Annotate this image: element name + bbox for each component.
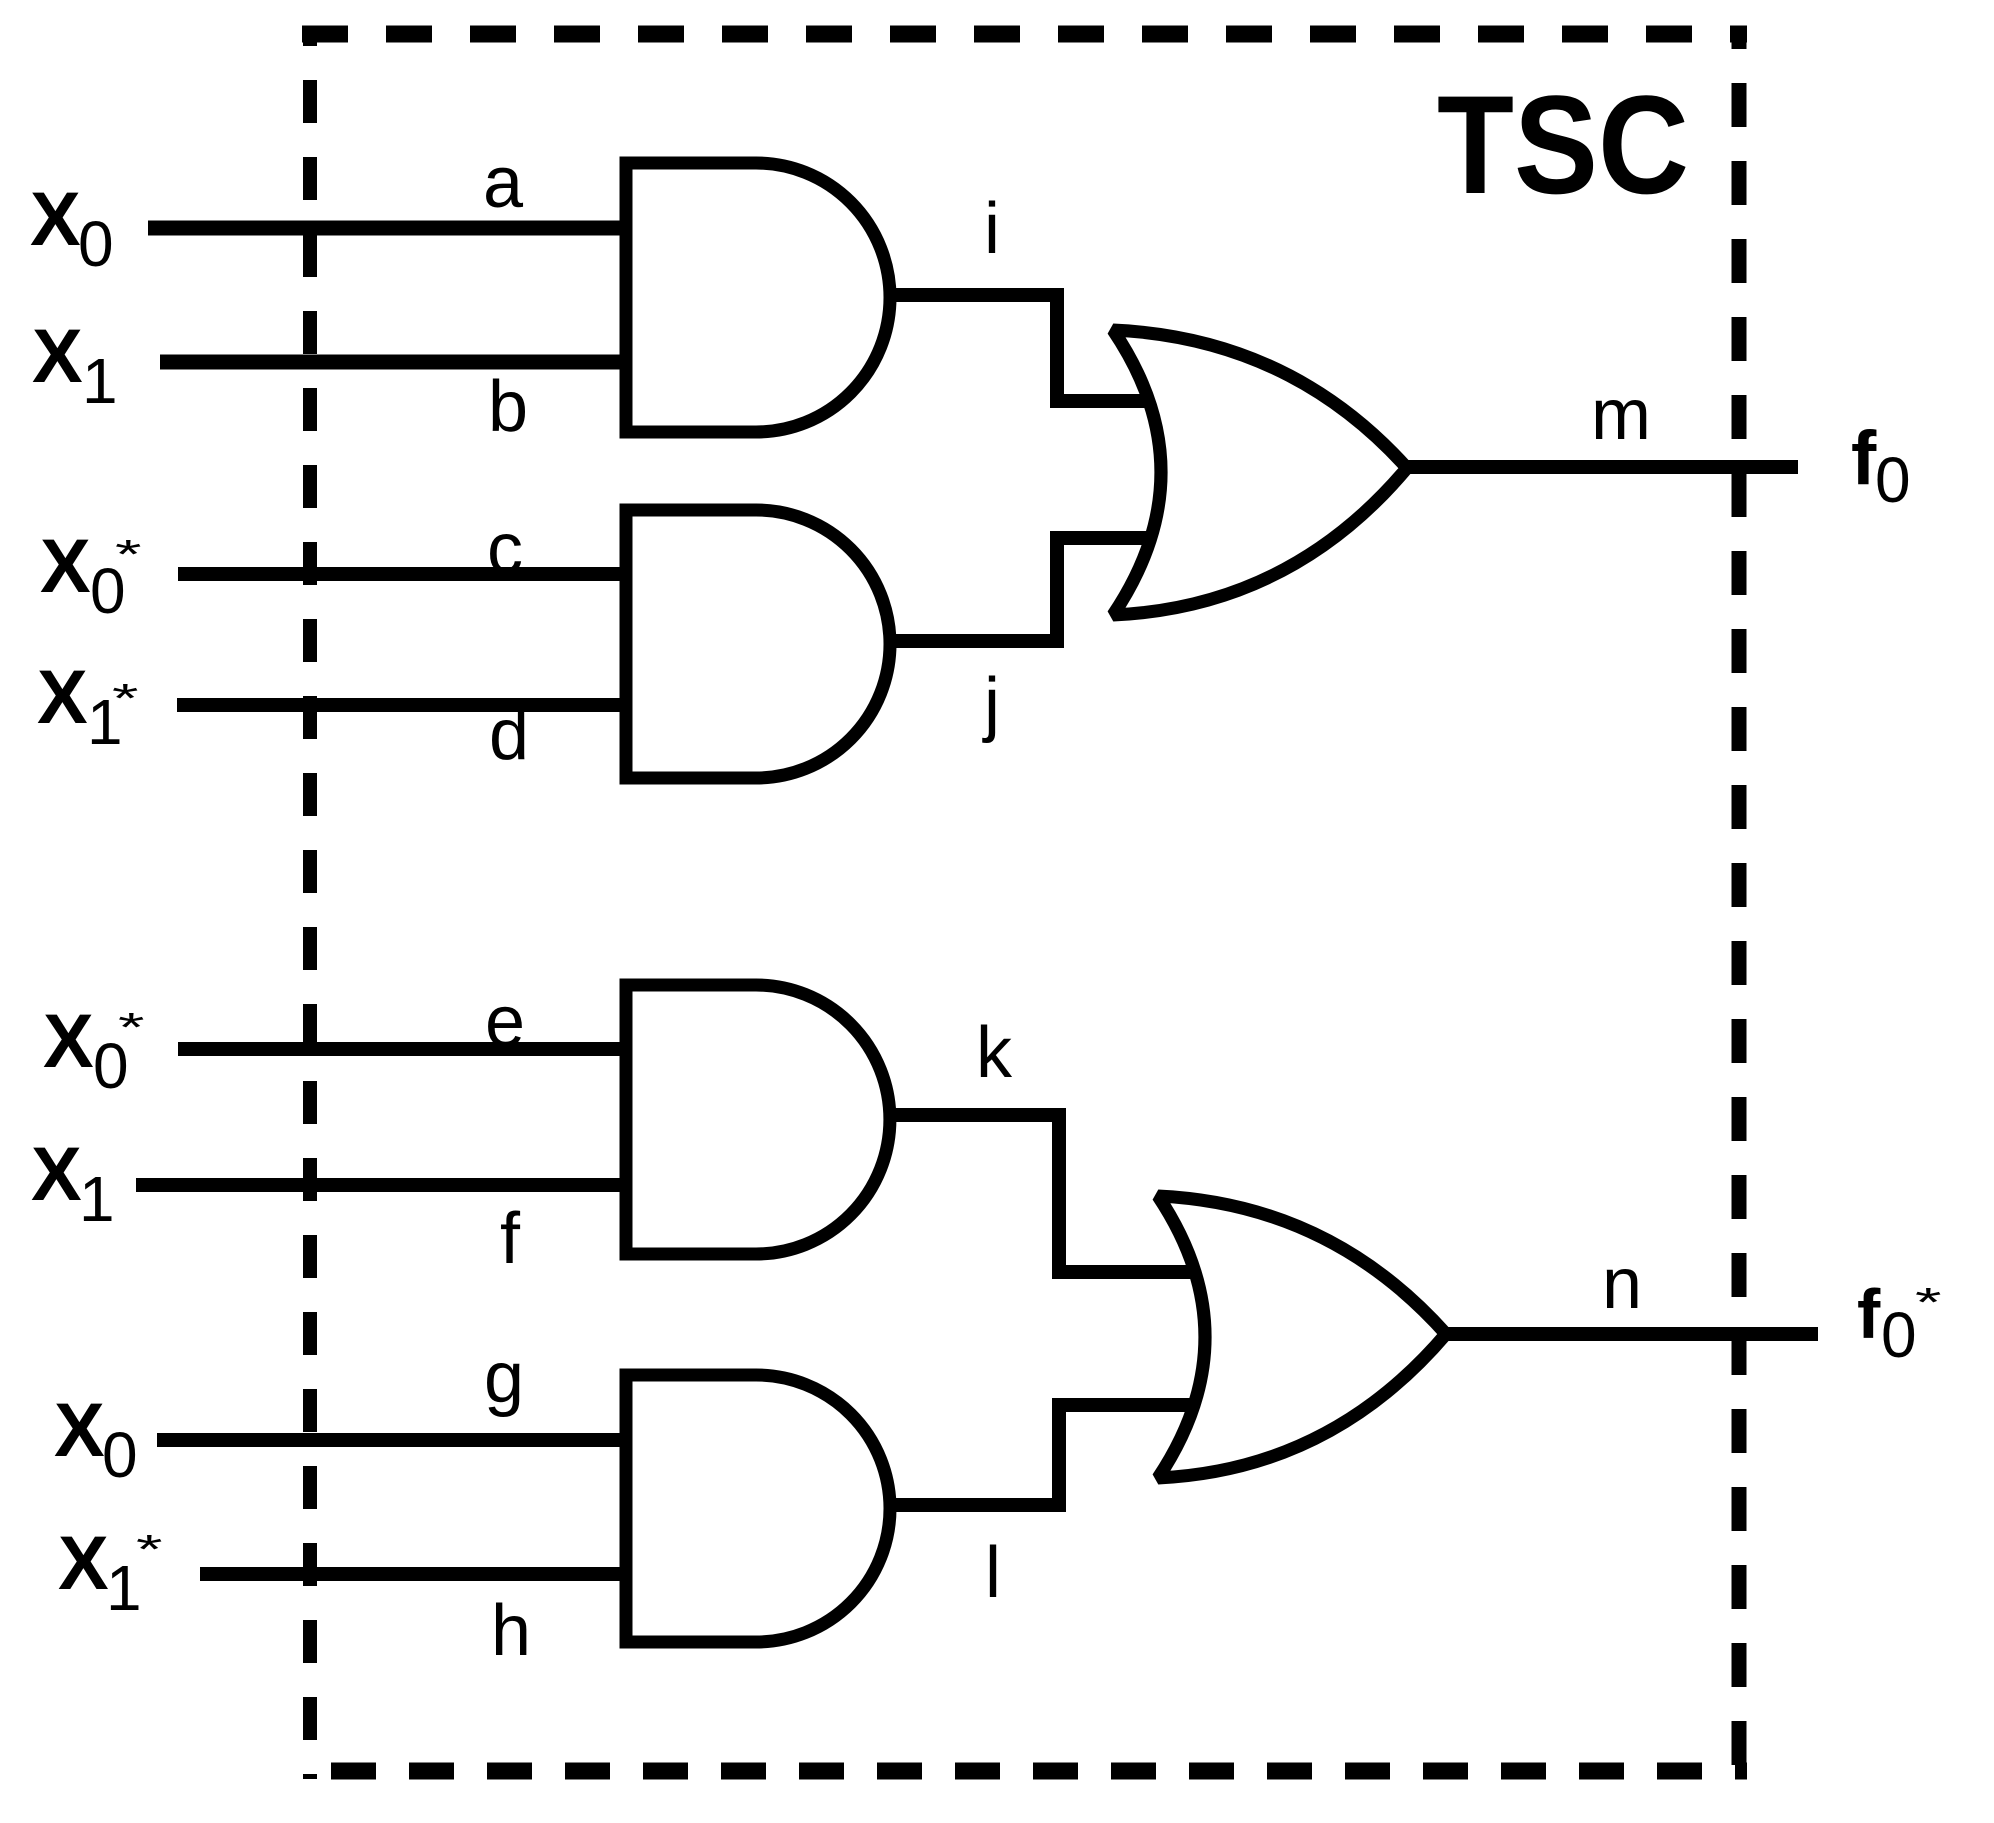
svg-text:f: f xyxy=(500,1199,521,1279)
input label X0 (row 1) xyxy=(30,177,114,280)
svg-text:f: f xyxy=(1857,1275,1881,1353)
svg-text:X: X xyxy=(30,177,81,262)
wire g (input X0 to AND U4) xyxy=(157,1433,630,1447)
wire j (AND U2 output to OR U5 bottom input) xyxy=(888,538,1150,641)
input label X0* (row 3) xyxy=(40,524,141,627)
wire h (input X1* to AND U4) xyxy=(200,1567,630,1581)
wire f (input X1 to AND U3) xyxy=(136,1178,630,1192)
svg-text:e: e xyxy=(485,982,525,1062)
svg-text:*: * xyxy=(136,1526,162,1572)
svg-text:X: X xyxy=(43,999,94,1084)
input label X1 (row 6) xyxy=(31,1132,115,1235)
TSC boundary box left edge (dashed) xyxy=(303,26,317,1779)
svg-text:TSC: TSC xyxy=(1437,66,1689,223)
svg-text:*: * xyxy=(118,1004,144,1050)
svg-text:d: d xyxy=(489,695,529,775)
svg-text:X: X xyxy=(58,1521,109,1606)
wire k (AND U3 output to OR U6 top input) xyxy=(888,1115,1195,1272)
wire n (OR U6 output to f0*) xyxy=(1444,1327,1818,1341)
input label X1 (row 2) xyxy=(32,314,118,417)
svg-text:0: 0 xyxy=(102,1419,138,1491)
AND gate U2 (inputs c,d ; output j) xyxy=(626,510,890,778)
AND gate U3 (inputs e,f ; output k) xyxy=(626,985,890,1254)
OR gate U5 (inputs i,j ; output m) xyxy=(1113,330,1407,615)
input label X0* (row 5) xyxy=(43,999,144,1102)
TSC boundary box bottom edge (dashed) xyxy=(302,1763,1747,1780)
svg-text:1: 1 xyxy=(82,345,118,417)
wire a (input X0 to AND U1) xyxy=(148,221,630,236)
svg-text:m: m xyxy=(1591,375,1651,455)
svg-text:j: j xyxy=(982,664,1000,744)
wire l (AND U4 output to OR U6 bottom input) xyxy=(888,1405,1195,1505)
svg-text:i: i xyxy=(984,189,1000,269)
AND gate U1 (inputs a,b ; output i) xyxy=(626,163,890,432)
wire c (input X0* to AND U2) xyxy=(178,567,630,581)
svg-text:0: 0 xyxy=(78,208,114,280)
TSC boundary box top edge (dashed) xyxy=(302,26,1747,43)
output label f0* xyxy=(1857,1275,1941,1371)
input label X1* (row 8) xyxy=(58,1521,162,1624)
svg-text:c: c xyxy=(487,509,523,589)
svg-text:1: 1 xyxy=(79,1163,115,1235)
svg-text:X: X xyxy=(32,314,83,399)
OR gate U6 (inputs k,l ; output n) xyxy=(1158,1196,1446,1478)
svg-text:a: a xyxy=(483,143,524,223)
wire i (AND U1 output to OR U5 top input) xyxy=(888,295,1150,401)
svg-text:n: n xyxy=(1602,1244,1642,1324)
wire m (OR U5 output to f0) xyxy=(1405,460,1798,474)
input label X1* (row 4) xyxy=(37,655,138,758)
AND gate U4 (inputs g,h ; output l) xyxy=(626,1375,890,1642)
svg-text:f: f xyxy=(1851,416,1877,501)
svg-text:0: 0 xyxy=(1875,444,1911,516)
svg-text:X: X xyxy=(37,655,88,740)
TSC boundary box right edge (dashed) xyxy=(1732,26,1747,1779)
input label X0 (row 7) xyxy=(54,1388,138,1491)
svg-text:h: h xyxy=(491,1591,531,1671)
svg-text:l: l xyxy=(985,1533,1001,1613)
wire b (input X1 to AND U1) xyxy=(160,355,630,370)
svg-text:X: X xyxy=(40,524,91,609)
wire d (input X1* to AND U2) xyxy=(177,698,630,712)
svg-text:*: * xyxy=(1915,1279,1941,1325)
svg-text:X: X xyxy=(31,1132,82,1217)
output label f0 xyxy=(1851,416,1911,516)
svg-text:b: b xyxy=(488,367,528,447)
svg-text:*: * xyxy=(112,675,138,721)
svg-text:*: * xyxy=(115,531,141,577)
svg-text:X: X xyxy=(54,1388,105,1473)
svg-text:k: k xyxy=(976,1013,1013,1093)
wire e (input X0* to AND U3) xyxy=(178,1042,630,1056)
svg-text:0: 0 xyxy=(1881,1299,1917,1371)
svg-text:g: g xyxy=(484,1338,524,1418)
